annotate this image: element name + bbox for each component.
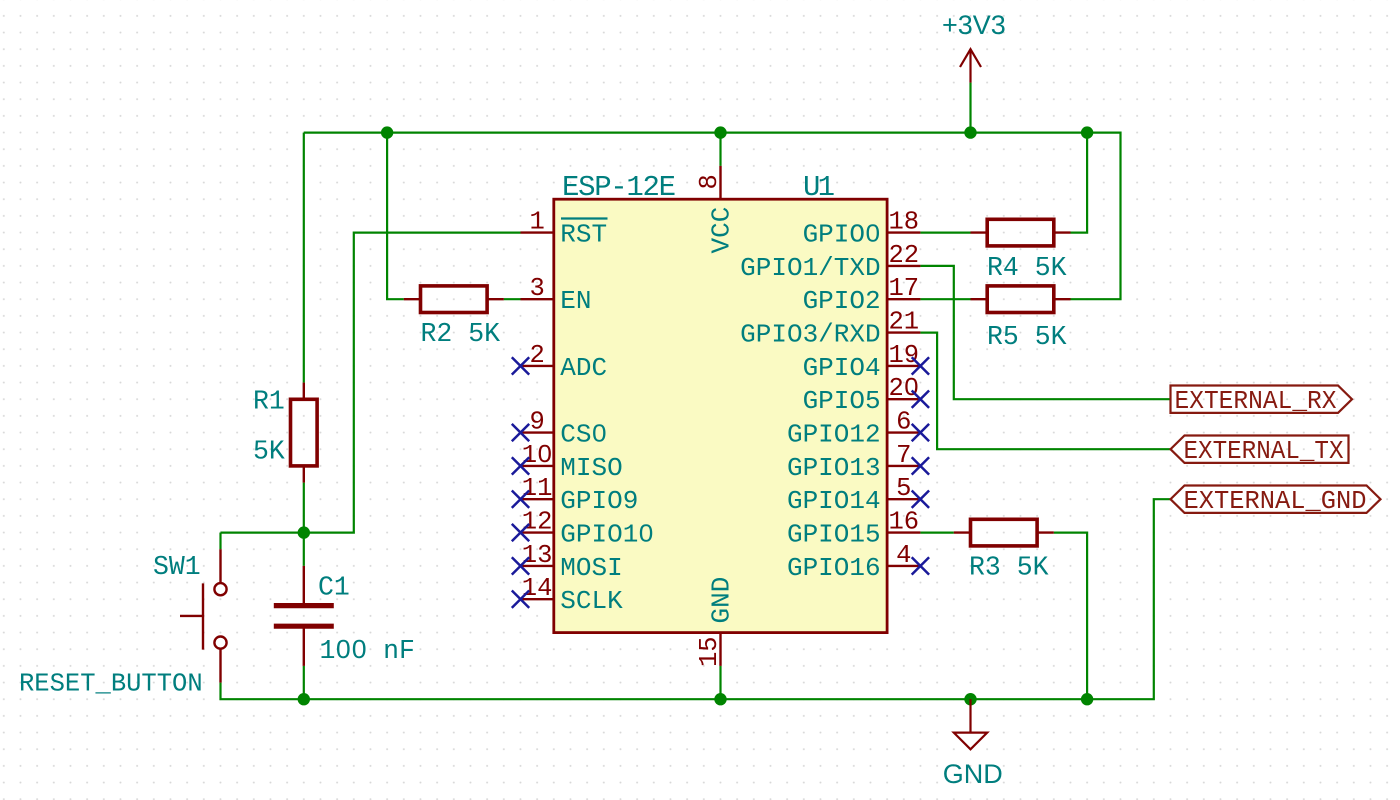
junction R3/GND rail: [1081, 693, 1093, 705]
node EXTERNAL_GND hierarchical label: [1171, 486, 1381, 513]
wire R4 to +3V3 rail: [1071, 133, 1088, 233]
pin 2 ADC (left): [521, 341, 608, 383]
no-connect GPIO16: [912, 557, 929, 574]
pin 21 GPIO3/RXD (right): [740, 308, 920, 350]
svg-text:9: 9: [529, 408, 544, 437]
no-connect SCLK: [512, 591, 529, 608]
svg-text:R3 5K: R3 5K: [969, 553, 1049, 583]
svg-text:GPIO12: GPIO12: [787, 420, 881, 450]
svg-text:EXTERNAL_TX: EXTERNAL_TX: [1184, 437, 1344, 466]
resistor R2: [404, 286, 504, 313]
op-amp U1 ESP-12E body: [554, 199, 887, 632]
svg-text:22: 22: [888, 241, 919, 270]
svg-text:6: 6: [896, 408, 911, 437]
svg-text:100 nF: 100 nF: [320, 636, 415, 666]
power symbol GND: [954, 699, 987, 749]
svg-text:GPIO14: GPIO14: [787, 486, 881, 516]
power symbol +3V3: [960, 49, 981, 82]
wire R2 to EN pin: [504, 298, 521, 300]
wire GND pin to rail: [719, 666, 721, 699]
svg-text:GPIO16: GPIO16: [787, 553, 881, 583]
svg-text:10: 10: [522, 441, 553, 470]
pin 8 VCC (top): [695, 166, 737, 254]
pin 13 MOSI (left): [521, 541, 623, 583]
svg-text:GPIO10: GPIO10: [560, 520, 654, 550]
capacitor C1: [274, 566, 334, 666]
svg-text:C1: C1: [318, 573, 350, 603]
wire R3 to GND rail: [1054, 533, 1087, 700]
svg-text:SCLK: SCLK: [560, 586, 623, 616]
junction +3V3/rail: [964, 126, 976, 138]
resistor R1: [291, 383, 318, 483]
svg-text:15: 15: [695, 636, 724, 667]
pin 14 SCLK (left): [521, 574, 624, 616]
svg-text:U1: U1: [803, 171, 835, 204]
wire SW1 top connection: [219, 533, 221, 550]
svg-text:19: 19: [888, 341, 919, 370]
pin 11 GPIO9 (left): [521, 474, 639, 516]
svg-text:EN: EN: [560, 286, 591, 316]
pin 20 GPIO5 (right): [803, 374, 921, 416]
svg-text:21: 21: [888, 308, 919, 337]
svg-text:GPIO3/RXD: GPIO3/RXD: [740, 320, 880, 350]
svg-text:R4 5K: R4 5K: [987, 253, 1067, 283]
junction GND symbol/rail: [964, 693, 976, 705]
svg-text:GPIO13: GPIO13: [787, 453, 881, 483]
resistor R4: [971, 219, 1071, 246]
svg-text:MOSI: MOSI: [560, 553, 622, 583]
pin 6 GPIO12 (right): [787, 408, 920, 450]
svg-text:GND: GND: [943, 759, 1003, 789]
svg-text:RESET_BUTTON: RESET_BUTTON: [19, 670, 203, 699]
transistor SW1 push button: [180, 549, 227, 682]
svg-text:12: 12: [522, 508, 553, 537]
svg-text:16: 16: [888, 508, 919, 537]
pin 19 GPIO4 (right): [803, 341, 921, 383]
wire +3V3 symbol stem: [969, 83, 971, 133]
wire C1 bottom to GND rail: [303, 666, 305, 699]
no-connect GPIO9: [512, 491, 529, 508]
wire VCC pin to rail: [719, 133, 721, 166]
no-connect GPIO13: [912, 457, 929, 474]
pin 3 EN (left): [521, 274, 592, 316]
wire RST net: [221, 233, 521, 533]
svg-text:R5 5K: R5 5K: [987, 322, 1067, 352]
svg-text:GPIO4: GPIO4: [803, 353, 881, 383]
pin 16 GPIO15 (right): [787, 508, 920, 550]
no-connect GPIO5: [912, 391, 929, 408]
svg-text:11: 11: [522, 474, 553, 503]
svg-text:R2 5K: R2 5K: [421, 319, 501, 349]
wire +3V3 top rail: [304, 133, 1121, 300]
svg-text:GPIO0: GPIO0: [803, 220, 881, 250]
svg-text:14: 14: [522, 574, 553, 603]
svg-text:2: 2: [529, 341, 544, 370]
svg-text:18: 18: [888, 208, 919, 237]
svg-text:GPIO9: GPIO9: [560, 486, 638, 516]
svg-text:13: 13: [522, 541, 553, 570]
pin 7 GPIO13 (right): [787, 441, 920, 483]
svg-text:ADC: ADC: [560, 353, 607, 383]
no-connect MISO: [512, 457, 529, 474]
svg-text:RST: RST: [560, 220, 607, 250]
svg-text:GND: GND: [707, 577, 737, 624]
svg-text:R1: R1: [253, 387, 285, 417]
no-connect ADC: [512, 357, 529, 374]
wire GPIO1/TXD to EXTERNAL_RX: [920, 266, 1170, 399]
pin 22 GPIO1/TXD (right): [740, 241, 920, 283]
junction R1-C1-SW node: [298, 526, 310, 538]
svg-text:20: 20: [888, 374, 919, 403]
node EXTERNAL_TX hierarchical label: [1171, 436, 1349, 463]
wire left rail down to R1: [303, 133, 305, 383]
svg-text:4: 4: [896, 541, 911, 570]
wire EN branch vertical: [387, 133, 404, 300]
junction GND pin/rail: [714, 693, 726, 705]
wire GPIO3/RXD to EXTERNAL_TX: [920, 333, 1170, 450]
wire R1 bottom to junction: [303, 483, 305, 566]
no-connect CS0: [512, 424, 529, 441]
svg-text:EXTERNAL_RX: EXTERNAL_RX: [1175, 387, 1337, 416]
no-connect GPIO14: [912, 491, 929, 508]
pin 18 GPIO0 (right): [803, 208, 921, 250]
pin 5 GPIO14 (right): [787, 474, 920, 516]
svg-text:8: 8: [695, 174, 724, 189]
no-connect GPIO10: [512, 524, 529, 541]
junction C1/GND rail: [298, 693, 310, 705]
svg-text:GPIO5: GPIO5: [803, 386, 881, 416]
svg-text:GPIO2: GPIO2: [803, 286, 881, 316]
pin 17 GPIO2 (right): [803, 274, 921, 316]
svg-text:VCC: VCC: [707, 207, 737, 254]
wire GPIO2 to R5: [920, 298, 970, 300]
wire GPIO15 to R3: [920, 531, 953, 533]
pin 1 RST (left): [521, 208, 608, 250]
pin 9 CS0 (left): [521, 408, 608, 450]
pin 12 GPIO10 (left): [521, 508, 654, 550]
svg-text:7: 7: [896, 441, 911, 470]
junction EN/rail: [381, 126, 393, 138]
svg-text:5K: 5K: [253, 437, 285, 467]
node EXTERNAL_RX hierarchical label: [1171, 386, 1353, 413]
wire GPIO0 to R4: [920, 232, 970, 234]
pin 10 MISO (left): [521, 441, 623, 483]
svg-text:5: 5: [896, 474, 911, 503]
svg-text:ESP-12E: ESP-12E: [562, 171, 676, 204]
no-connect MOSI: [512, 557, 529, 574]
no-connect GPIO12: [912, 424, 929, 441]
svg-text:EXTERNAL_GND: EXTERNAL_GND: [1184, 487, 1367, 516]
svg-text:+3V3: +3V3: [942, 10, 1006, 40]
svg-text:3: 3: [529, 274, 544, 303]
junction R4/rail: [1081, 126, 1093, 138]
junction VCC/rail: [714, 126, 726, 138]
svg-text:SW1: SW1: [153, 552, 201, 582]
svg-text:GPIO15: GPIO15: [787, 520, 881, 550]
svg-text:MISO: MISO: [560, 453, 622, 483]
resistor R5: [971, 286, 1071, 313]
resistor R3: [954, 519, 1054, 546]
pin 15 GND (bottom): [695, 577, 737, 667]
no-connect GPIO4: [912, 357, 929, 374]
svg-text:GPIO1/TXD: GPIO1/TXD: [740, 253, 880, 283]
svg-text:17: 17: [888, 274, 919, 303]
svg-text:1: 1: [529, 208, 544, 237]
pin 4 GPIO16 (right): [787, 541, 920, 583]
wire SW1 bottom connection: [221, 499, 1171, 699]
